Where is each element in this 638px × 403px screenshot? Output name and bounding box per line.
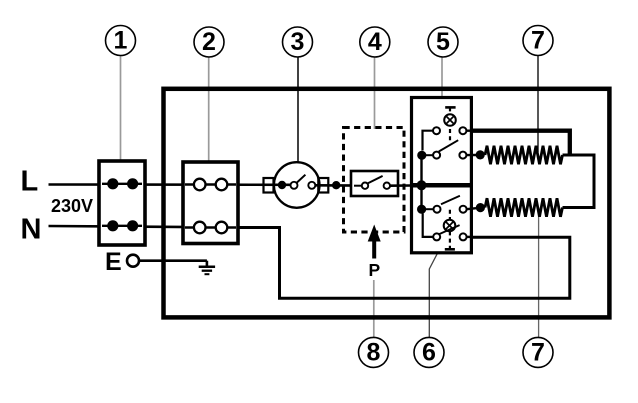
svg-text:4: 4 bbox=[368, 28, 382, 56]
svg-text:E: E bbox=[105, 248, 122, 276]
svg-text:N: N bbox=[21, 214, 42, 246]
svg-text:P: P bbox=[369, 260, 381, 280]
svg-text:L: L bbox=[21, 165, 39, 197]
svg-text:6: 6 bbox=[422, 339, 436, 367]
svg-text:2: 2 bbox=[202, 28, 216, 56]
svg-text:230V: 230V bbox=[51, 196, 93, 216]
svg-text:5: 5 bbox=[436, 28, 450, 56]
svg-text:3: 3 bbox=[291, 28, 305, 56]
svg-text:8: 8 bbox=[367, 339, 381, 367]
svg-text:1: 1 bbox=[114, 27, 128, 55]
svg-text:7: 7 bbox=[531, 27, 545, 55]
svg-text:7: 7 bbox=[531, 339, 545, 367]
